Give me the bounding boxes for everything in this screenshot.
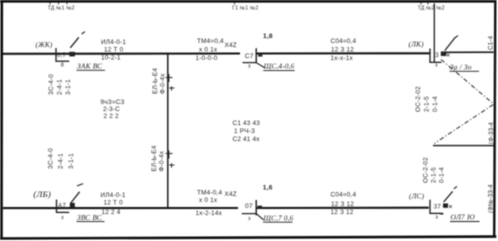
bus tie wire xyxy=(167,53,169,209)
disconnector QS6 blade xyxy=(444,191,453,202)
svg-text:З7: З7 xyxy=(434,205,442,211)
bus A segment 3 to right border xyxy=(445,51,494,53)
cell Q6 lead dash xyxy=(440,213,444,215)
svg-text:(ЛК): (ЛК) xyxy=(409,40,425,48)
QS1 apex dash xyxy=(82,32,85,34)
svg-text:Х4Z: Х4Z xyxy=(225,191,237,198)
cell Q5 bottom bar xyxy=(242,213,257,215)
svg-text:12 З 12: 12 З 12 xyxy=(331,209,354,216)
svg-text:За / Зо: За / Зо xyxy=(450,62,472,71)
feeder line label block BR xyxy=(331,192,357,217)
svg-text:12 Т 0: 12 Т 0 xyxy=(104,47,124,54)
svg-text:(Ф№-33-4: (Ф№-33-4 xyxy=(488,184,495,213)
svg-text:С04=0,4: С04=0,4 xyxy=(331,38,357,45)
rotated tie label upper xyxy=(152,68,167,94)
svg-text:(ЛС): (ЛС) xyxy=(409,192,425,200)
svg-text:С04=0,4: С04=0,4 xyxy=(331,192,357,199)
disconnector QS3 blade xyxy=(445,38,455,51)
feeder line label block BM xyxy=(196,189,237,217)
cable run dash-dot up xyxy=(441,60,493,104)
bus A segment 2 xyxy=(256,52,429,54)
svg-text:ТМ4-0,4: ТМ4-0,4 xyxy=(197,189,222,196)
svg-text:1,6: 1,6 xyxy=(263,184,273,191)
svg-text:(ЛБ): (ЛБ) xyxy=(33,189,51,199)
disconnector QS1 blade xyxy=(70,37,79,48)
svg-text:0-1-4: 0-1-4 xyxy=(439,167,446,183)
wire: transformer T2 drop to top bus xyxy=(433,3,435,62)
svg-text:ОЛ7 Ю: ОЛ7 Ю xyxy=(451,213,476,222)
cell Q5 vertical bar xyxy=(255,200,257,215)
cell Q2 blade xyxy=(256,63,264,68)
feeder line label block TL xyxy=(101,39,126,62)
feeder line label block BL xyxy=(101,192,126,216)
cell Q6 node xyxy=(443,203,448,207)
QS6 apex dash xyxy=(454,186,457,188)
svg-text:2-1-5: 2-1-5 xyxy=(424,96,431,112)
svg-text:0,7: 0,7 xyxy=(57,52,67,59)
svg-text:ЩС,7 0,6: ЩС,7 0,6 xyxy=(262,214,293,222)
svg-text:з: з xyxy=(61,215,64,221)
svg-text:ТМ4=0,4: ТМ4=0,4 xyxy=(197,38,224,45)
svg-text:07: 07 xyxy=(245,203,253,210)
feeder exit line right xyxy=(433,145,494,147)
svg-text:2-3-С: 2-3-С xyxy=(103,106,120,113)
bus A (top) segment 1 xyxy=(3,52,240,54)
svg-text:(Ф-33-4: (Ф-33-4 xyxy=(489,122,495,144)
rotated tie label lower xyxy=(151,145,166,171)
svg-text:ТД №1 №2: ТД №1 №2 xyxy=(48,5,75,11)
cell Q4 vertical bar xyxy=(56,200,58,213)
cell Q1 node xyxy=(69,52,75,57)
svg-text:з: з xyxy=(248,64,251,70)
cell Q6 bottom bar xyxy=(429,212,443,214)
svg-text:С1-4: С1-4 xyxy=(488,35,495,50)
tick marks T1 xyxy=(50,2,67,4)
svg-text:3-1-1: 3-1-1 xyxy=(65,79,72,95)
cell Q2 bottom bar xyxy=(243,62,257,64)
svg-text:С2 41 4х: С2 41 4х xyxy=(233,136,261,143)
svg-text:12 З 12: 12 З 12 xyxy=(331,46,354,53)
svg-text:2-4-1: 2-4-1 xyxy=(58,153,65,169)
rotated block right upper xyxy=(415,86,439,112)
svg-text:2 2 2: 2 2 2 xyxy=(104,113,119,120)
svg-text:1х-х-1х: 1х-х-1х xyxy=(331,55,354,62)
QS4 apex dash xyxy=(77,184,83,186)
svg-text:3-1-1: 3-1-1 xyxy=(68,153,75,169)
svg-text:ЗС-4-0: ЗС-4-0 xyxy=(48,148,55,169)
svg-text:х 0 1х: х 0 1х xyxy=(199,47,218,54)
svg-text:8: 8 xyxy=(61,63,64,69)
tie meter marks upper xyxy=(166,74,175,91)
rotated block right lower xyxy=(423,157,446,183)
svg-text:ТД №2 №2: ТД №2 №2 xyxy=(418,5,445,11)
svg-text:Ф-0-4х: Ф-0-4х xyxy=(160,73,167,94)
cell Q5 node dash xyxy=(258,206,263,208)
svg-text:А7: А7 xyxy=(58,203,66,210)
svg-text:ЕЛ-Ь-Е4: ЕЛ-Ь-Е4 xyxy=(151,145,158,171)
svg-text:С1 43 43: С1 43 43 xyxy=(233,120,261,127)
svg-text:ИЛ4-0-1: ИЛ4-0-1 xyxy=(101,39,126,46)
svg-text:ЗВС ВС: ЗВС ВС xyxy=(77,213,102,222)
cell Q1 bottom bar xyxy=(55,60,69,62)
feeder line label block TM xyxy=(196,38,237,62)
svg-text:1,8: 1,8 xyxy=(263,33,273,40)
svg-text:ж: ж xyxy=(449,204,453,210)
svg-text:2-4-1: 2-4-1 xyxy=(57,79,64,95)
svg-text:9чЗ=СЗ: 9чЗ=СЗ xyxy=(101,99,125,106)
svg-text:ЕЛ-Ь-Е4: ЕЛ-Ь-Е4 xyxy=(152,68,159,94)
svg-text:12 Т 0: 12 Т 0 xyxy=(104,199,124,206)
border frame right xyxy=(494,0,495,238)
feeder line label block TR xyxy=(331,38,357,62)
bus B segment 2 xyxy=(256,207,429,209)
svg-text:Х4Z: Х4Z xyxy=(225,42,237,49)
svg-text:ж: ж xyxy=(446,53,450,59)
svg-text:С7: С7 xyxy=(245,53,254,60)
svg-text:2-1-5: 2-1-5 xyxy=(431,167,438,183)
svg-text:з: з xyxy=(248,216,251,222)
border frame top xyxy=(0,0,496,3)
QS3 apex dash xyxy=(455,36,458,38)
cell Q2 vertical bar xyxy=(255,48,257,63)
rotated meter block at Q1 xyxy=(48,74,72,95)
cell Q5 blade xyxy=(256,214,263,220)
svg-text:з: з xyxy=(435,215,438,221)
svg-text:12 2 4: 12 2 4 xyxy=(102,209,121,216)
cell Q1 vertical bar xyxy=(55,48,57,61)
cable run dash-dot down xyxy=(434,105,493,144)
svg-text:1 РЧ-З: 1 РЧ-З xyxy=(234,128,255,135)
svg-text:0-1-4: 0-1-4 xyxy=(432,96,439,112)
svg-text:Ф-0-4х: Ф-0-4х xyxy=(159,150,166,171)
cell Q3 node xyxy=(441,51,446,56)
cell Q3 vertical bar xyxy=(429,49,431,63)
cell Q4 node xyxy=(70,203,75,207)
svg-text:ОС-2-02: ОС-2-02 xyxy=(423,157,430,183)
cell Q3 bottom bar xyxy=(429,61,441,63)
metering block C xyxy=(233,120,261,143)
svg-text:10-2-1: 10-2-1 xyxy=(101,55,121,62)
svg-text:ЩС,4-0,6: ЩС,4-0,6 xyxy=(263,63,295,71)
tie meter marks lower xyxy=(166,151,175,168)
tick G1 xyxy=(234,2,236,4)
svg-text:ЗС-4-0: ЗС-4-0 xyxy=(48,74,55,95)
rotated meter block at Q4 xyxy=(48,148,76,169)
svg-text:З: З xyxy=(435,53,439,59)
svg-text:(ЖК): (ЖК) xyxy=(36,41,53,49)
metering block CL xyxy=(101,99,125,120)
svg-text:з: з xyxy=(435,63,438,69)
svg-text:х 0 1х: х 0 1х xyxy=(199,197,218,204)
svg-text:ЗАК ВС: ЗАК ВС xyxy=(77,62,102,71)
border frame bottom xyxy=(0,237,496,239)
cell Q2 node dash xyxy=(258,55,263,57)
svg-text:ОС-2-02: ОС-2-02 xyxy=(415,86,422,112)
svg-text:1-0-0-0: 1-0-0-0 xyxy=(196,55,218,62)
disconnector QS4 blade xyxy=(71,192,80,203)
cell Q6 vertical bar xyxy=(429,200,431,214)
svg-text:Г1 №1 №2: Г1 №1 №2 xyxy=(232,5,258,11)
bus B (bottom) segment 1 xyxy=(3,207,238,209)
cell Q4 bottom bar xyxy=(56,211,69,213)
svg-text:12 З 12: 12 З 12 xyxy=(331,201,354,208)
svg-text:ИЛ4-0-1: ИЛ4-0-1 xyxy=(101,192,126,199)
svg-text:1х-2-14х: 1х-2-14х xyxy=(196,210,223,217)
border frame left xyxy=(0,0,3,239)
tick T2 xyxy=(421,2,428,4)
